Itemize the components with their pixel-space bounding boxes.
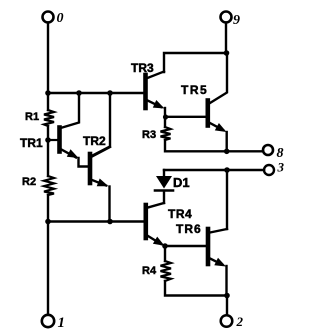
svg-text:R1: R1 bbox=[25, 111, 39, 123]
wire to diode bbox=[163, 170, 165, 176]
svg-text:TR3: TR3 bbox=[131, 61, 154, 75]
wire TR3 emitter rail R3 bbox=[164, 108, 166, 127]
junction dot I bbox=[224, 167, 230, 173]
wire R4 bottom to node K bbox=[165, 281, 227, 296]
wire TR3 collector to node bbox=[164, 53, 226, 72]
transistor TR1 bbox=[48, 128, 79, 159]
terminal 2 bbox=[221, 315, 233, 327]
svg-text:TR4: TR4 bbox=[168, 207, 192, 221]
resistor R3 bbox=[161, 127, 171, 140]
svg-text:D1: D1 bbox=[173, 175, 190, 190]
wire node to TR5 collector bbox=[210, 53, 227, 103]
terminal 1 bbox=[42, 315, 54, 327]
wire terminal 3 rail bbox=[164, 169, 264, 171]
diode D1 bbox=[155, 176, 173, 203]
wire left rail mid bbox=[47, 126, 49, 176]
terminal 8 bbox=[263, 145, 273, 155]
junction dot C bbox=[107, 90, 113, 96]
wire TR6 emitter drop bbox=[225, 266, 227, 296]
svg-text:TR1: TR1 bbox=[20, 136, 43, 150]
wire top rail bbox=[47, 92, 145, 94]
wire left rail lower bbox=[47, 195, 49, 314]
wire TR2 collector drop bbox=[92, 93, 111, 156]
junction dot A bbox=[45, 90, 51, 96]
wire TR5 base bbox=[165, 116, 206, 118]
terminal 9 bbox=[221, 12, 232, 23]
svg-text:R2: R2 bbox=[22, 176, 36, 188]
transistor TR6 bbox=[208, 229, 227, 267]
junction dot B bbox=[76, 90, 82, 96]
wire node to terminal 9 bbox=[225, 23, 227, 54]
junction dot G bbox=[163, 114, 168, 119]
svg-text:R4: R4 bbox=[142, 265, 157, 277]
junction dot E bbox=[107, 219, 113, 225]
svg-text:TR5: TR5 bbox=[181, 83, 208, 97]
svg-text:TR6: TR6 bbox=[176, 222, 202, 236]
svg-text:0: 0 bbox=[57, 11, 64, 26]
resistor R4 bbox=[161, 261, 172, 281]
transistor TR5 bbox=[208, 101, 227, 133]
svg-text:9: 9 bbox=[233, 13, 240, 28]
transistor TR4 bbox=[146, 203, 165, 246]
wire TR2 emitter drop bbox=[108, 187, 110, 222]
junction dot TR1 base bbox=[45, 137, 51, 143]
terminal 3 bbox=[264, 165, 274, 175]
junction dot J bbox=[162, 243, 168, 249]
wire TR6 base bbox=[165, 245, 206, 247]
wire TR5 emitter drop bbox=[225, 132, 227, 151]
resistor R1 bbox=[44, 110, 54, 126]
wire left rail upper bbox=[47, 23, 49, 111]
transistor TR2 bbox=[90, 147, 110, 186]
svg-text:TR2: TR2 bbox=[83, 134, 106, 148]
svg-text:R3: R3 bbox=[142, 129, 156, 141]
resistor R2 bbox=[44, 176, 54, 195]
junction dot H bbox=[224, 149, 230, 155]
wire bottom-left rail bbox=[48, 220, 144, 222]
wire TR1 collector drop bbox=[61, 93, 80, 128]
terminal 0 bbox=[43, 12, 54, 23]
svg-text:1: 1 bbox=[58, 315, 66, 331]
junction dot K bbox=[224, 293, 230, 299]
svg-text:2: 2 bbox=[236, 314, 244, 329]
svg-text:3: 3 bbox=[277, 160, 285, 175]
junction dot D bbox=[45, 219, 51, 225]
wire R4 top bbox=[164, 246, 166, 261]
wire R3 to terminal 8 bbox=[165, 140, 263, 151]
transistor TR3 bbox=[146, 72, 165, 109]
wire TR6 collector rise bbox=[226, 170, 228, 229]
wire TR1 emitter to TR2 base bbox=[79, 158, 89, 167]
junction dot F bbox=[224, 50, 230, 56]
wire node K to terminal 2 bbox=[226, 296, 228, 316]
